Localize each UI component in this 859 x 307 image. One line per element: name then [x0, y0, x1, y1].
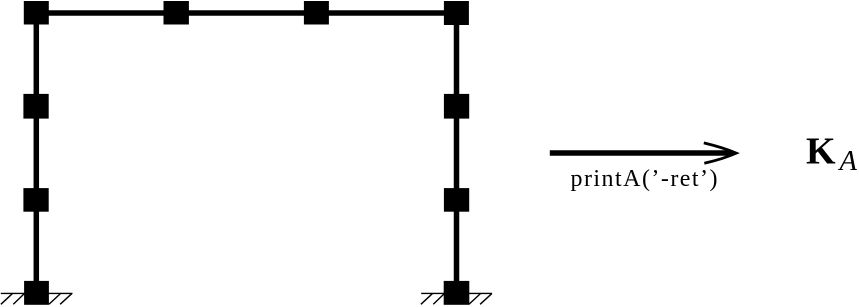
wire: top beam — [37, 10, 457, 16]
node: top-right corner — [444, 1, 469, 25]
node: left column upper — [23, 94, 48, 119]
node: right column upper — [444, 94, 469, 119]
node: left column lower — [23, 188, 48, 212]
label: K — [806, 131, 836, 173]
node: top beam intermediate 1 — [164, 1, 189, 25]
node: right column lower — [444, 188, 469, 212]
node: left base — [24, 281, 49, 305]
ground: left support — [1, 293, 73, 304]
node: top beam intermediate 2 — [304, 1, 329, 25]
svg-text:printA(’-ret’): printA(’-ret’) — [571, 166, 718, 192]
arrow: printA — [550, 143, 737, 163]
wire: left column — [34, 13, 40, 293]
ground: right support — [421, 293, 492, 304]
svg-text:K: K — [806, 131, 836, 173]
wire: right column — [454, 13, 460, 293]
node: right base — [444, 281, 470, 305]
label: printA('-ret') — [571, 166, 718, 192]
svg-text:A: A — [838, 146, 858, 177]
node: top-left corner — [24, 1, 49, 25]
label: subscript A — [838, 146, 858, 177]
